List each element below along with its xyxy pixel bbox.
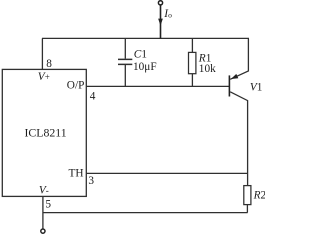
terminal Io (open circle) xyxy=(158,1,162,5)
svg-text:10μF: 10μF xyxy=(133,61,157,73)
capacitor C1 top lead xyxy=(124,38,126,58)
capacitor C1 bottom lead xyxy=(124,65,126,86)
svg-text:O/P: O/P xyxy=(67,80,85,92)
transistor V1 emitter wire to rail xyxy=(230,38,248,79)
wire bottom return xyxy=(43,212,248,214)
wire pin8 to rail xyxy=(41,38,43,69)
transistor V1 collector wire down xyxy=(230,92,247,186)
resistor R1 top lead xyxy=(191,38,193,52)
svg-text:10k: 10k xyxy=(199,63,216,75)
svg-text:3: 3 xyxy=(88,175,94,187)
svg-text:ICL8211: ICL8211 xyxy=(25,125,67,139)
capacitor C1 plates xyxy=(118,59,132,64)
wire TH pin3 to R2 node xyxy=(86,172,247,174)
transistor V1 emitter arrow head (PNP) xyxy=(231,74,238,79)
svg-text:C1: C1 xyxy=(134,49,147,61)
svg-text:Io: Io xyxy=(163,8,172,20)
svg-text:5: 5 xyxy=(45,199,51,211)
wire Io terminal lead xyxy=(160,5,162,39)
svg-text:V+: V+ xyxy=(38,71,50,83)
terminal bottom (open circle) xyxy=(41,229,45,233)
resistor R1 body xyxy=(189,52,196,73)
wire pin5 down to bottom terminal xyxy=(42,196,44,229)
IC U1 ICL8211 body xyxy=(2,69,86,196)
svg-text:V1: V1 xyxy=(250,81,263,93)
svg-text:8: 8 xyxy=(46,58,52,70)
wire top supply rail xyxy=(42,37,249,39)
resistor R1 bottom lead xyxy=(191,74,193,87)
wire O/P pin4 to base of V1 xyxy=(86,85,229,87)
svg-text:4: 4 xyxy=(90,90,96,102)
current arrow Io head xyxy=(158,19,163,26)
resistor R2 bottom lead xyxy=(246,205,248,213)
resistor R2 body xyxy=(244,186,251,205)
transistor V1 base bar xyxy=(228,75,230,96)
svg-text:R2: R2 xyxy=(253,190,265,202)
svg-text:TH: TH xyxy=(69,167,84,179)
svg-text:V-: V- xyxy=(39,185,49,197)
